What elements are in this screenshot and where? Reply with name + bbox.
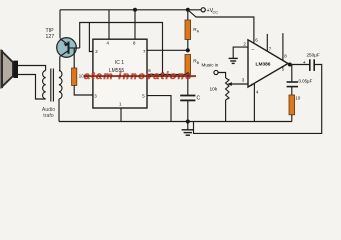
label Audio trafo — [42, 107, 55, 119]
ground bus wire — [59, 121, 292, 123]
wire pin8 riser — [134, 10, 136, 39]
watermark — [84, 71, 196, 82]
wire pin2 to ground — [233, 47, 248, 58]
svg-text:LM386: LM386 — [256, 62, 271, 68]
label RA — [193, 27, 200, 33]
resistor RA — [185, 10, 191, 51]
wire pin1 to ground bus — [120, 108, 122, 122]
svg-text:127: 127 — [46, 34, 55, 40]
svg-text:CC: CC — [213, 10, 219, 14]
wire base — [69, 47, 80, 49]
wire pin5 to ground bus — [147, 96, 171, 122]
op IC1 LM555 body — [93, 39, 147, 108]
transistor Q1 TIP127 — [57, 38, 77, 58]
capacitor C — [180, 75, 195, 122]
wire output to coupling cap — [288, 64, 309, 66]
junction RA RB — [186, 48, 190, 52]
capacitor 250uF — [310, 59, 314, 71]
svg-text:10: 10 — [295, 96, 301, 101]
pin8 stub — [282, 33, 284, 60]
svg-text:C: C — [197, 96, 201, 102]
svg-text:250µF: 250µF — [307, 53, 320, 58]
label RB — [193, 59, 200, 65]
wire Vcc to pin6 — [188, 10, 254, 44]
pin numbers IC1 — [94, 40, 151, 106]
op-amp U2 LM386 — [248, 40, 288, 87]
wire transformer secondary bottom to ground bus — [58, 99, 60, 122]
svg-text:0.05µF: 0.05µF — [299, 79, 313, 84]
svg-text:IC 1: IC 1 — [115, 60, 124, 66]
wire pin4 riser — [108, 10, 110, 39]
svg-text:−: − — [251, 47, 254, 53]
terminal Music in — [214, 70, 218, 74]
junction ground — [186, 119, 190, 123]
potentiometer 10k — [226, 78, 248, 122]
wire cap to output return loop — [194, 65, 322, 134]
wire speaker bottom to transformer — [18, 75, 46, 100]
resistor RB — [185, 55, 191, 75]
pin numbers LM386 — [242, 38, 287, 95]
svg-text:10k: 10k — [210, 87, 218, 93]
pin7 stub — [266, 34, 268, 51]
wire emitter to top rail — [59, 10, 61, 38]
junction RB bottom — [186, 72, 190, 76]
terminal +Vcc — [201, 8, 205, 12]
junction pin6 node — [161, 73, 165, 77]
label +Vcc — [207, 8, 219, 14]
svg-text:trafo: trafo — [43, 113, 53, 119]
label TIP 127 — [46, 28, 55, 40]
wire pin2 riser — [89, 23, 93, 52]
svg-text:Music in: Music in — [202, 63, 219, 68]
junction pin8 rail — [133, 8, 137, 12]
wire base loop to pin2/6 node — [80, 23, 163, 75]
svg-text:+: + — [303, 60, 306, 66]
wire music terminal to pot — [218, 73, 226, 79]
wire pin4 to ground bus — [253, 84, 255, 122]
junction output pin5 — [288, 63, 292, 67]
transformer T1 audio trafo — [43, 69, 62, 102]
svg-text:+: + — [250, 82, 253, 88]
wire collector to transformer primary top — [59, 57, 61, 71]
wire pin7 to RA/RB junction — [147, 49, 188, 51]
wire speaker top to transformer — [18, 66, 46, 71]
top supply rail — [60, 9, 201, 11]
capacitor 0.05uF — [287, 65, 298, 96]
ground symbol main — [182, 122, 194, 136]
ground symbol pin2 — [229, 58, 238, 63]
junction Vcc node — [186, 8, 190, 12]
resistor 10R — [72, 48, 93, 95]
wire pin6 to RB bottom — [147, 74, 188, 76]
resistor 10 — [289, 95, 295, 122]
speaker LS1 — [0, 50, 18, 88]
